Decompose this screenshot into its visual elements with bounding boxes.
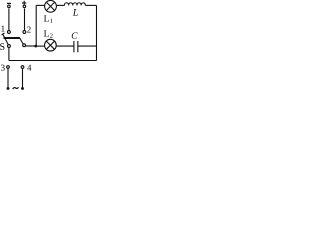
wire pole 2 to junction [26,45,36,47]
label 4 [27,65,31,71]
label 1 [1,26,4,32]
wire lamp L2 to capacitor [56,45,73,47]
capacitor C left plate [73,41,75,52]
wire pole 1 down to bottom rail [8,48,10,61]
contact 2 circle [23,31,26,34]
wire terminal 4 to AC source [22,69,24,88]
AC source tilde [13,87,19,89]
DC negative terminal sign [7,2,11,4]
right rail wire [96,5,98,60]
wire capacitor to right rail [78,45,97,47]
terminal 4 circle [21,66,24,69]
DC positive terminal circle [23,5,26,8]
DC positive terminal sign [22,1,26,5]
DC negative terminal circle [8,5,11,8]
label C capacitor [72,32,78,38]
AC source end dot left [7,87,10,90]
wire from positive terminal to contact 2 [24,9,26,31]
capacitor C right plate [77,41,79,52]
bottom rail wire [9,60,97,62]
junction dot at left rail and bottom branch [34,45,37,48]
AC source end dot right [21,87,24,90]
label 2 [27,27,31,33]
switch S blade 2 [20,38,24,44]
switch S pole 1 circle [7,45,10,48]
left rail wire [35,5,37,46]
wire left rail corner to lamp L1 [36,4,44,6]
wire lamp L1 to coil [57,4,65,6]
contact 1 circle [7,31,10,34]
wire from negative terminal to contact 1 [8,9,10,31]
wire terminal 3 to AC source [7,69,9,88]
switch S blade 1 with handle [3,34,9,45]
label 3 [1,65,5,71]
inductor L coil [64,3,85,6]
label L2 [44,30,49,36]
switch S insulating bar [4,37,21,39]
terminal 3 circle [7,66,10,69]
label S [0,43,4,50]
label L inductor [73,9,78,16]
lamp L1 circle [45,0,57,12]
switch S pole 2 circle [23,44,26,47]
lamp L1 cross [46,2,54,10]
wire junction to lamp L2 [36,45,45,47]
label L1 [44,15,49,21]
lamp L2 circle [45,39,57,51]
top rail wire right of coil [85,4,96,6]
switch S handle tip cap [2,33,5,35]
lamp L2 cross [46,41,54,49]
